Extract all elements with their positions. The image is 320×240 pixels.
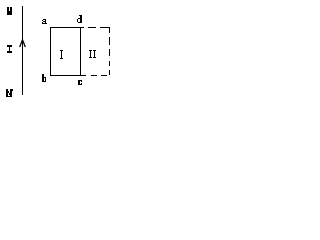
label II (region II) first I xyxy=(89,50,92,51)
dashed rect region II : right edge dash 4 xyxy=(109,61,110,66)
rectangle abcd : right edge d-c xyxy=(80,27,81,76)
dashed rect region II : top edge dash 3 into corner xyxy=(100,27,110,28)
label a xyxy=(43,19,46,20)
dashed rect region II : top edge dash 1 xyxy=(81,27,84,28)
dashed rect region II : bottom edge dash 3 xyxy=(101,75,107,76)
dashed rect region II : top edge dash 2 xyxy=(88,27,96,28)
rectangle abcd region I : top edge a-d xyxy=(50,27,81,28)
label II (region II) second I xyxy=(93,50,96,51)
dashed rect region II : bottom edge dash 2 xyxy=(91,75,97,76)
current arrow head on wire MN xyxy=(20,40,26,47)
background xyxy=(0,0,116,103)
wire MN (vertical conductor) xyxy=(22,6,23,95)
label d xyxy=(80,15,82,23)
label I (region I) xyxy=(60,50,63,51)
label I (current) xyxy=(7,45,12,47)
dashed rect region II : right edge dash 3 xyxy=(109,49,110,56)
rectangle abcd : bottom edge b-c (extends into first dash of region II bottom) xyxy=(50,75,86,76)
dashed rect region II : right edge dash 1 (from top corner) xyxy=(109,28,110,33)
label N xyxy=(6,89,8,97)
dashed rect region II : right edge dash 2 xyxy=(109,37,110,45)
rectangle abcd : left edge a-b xyxy=(50,27,51,76)
label b xyxy=(42,74,44,82)
dashed rect region II : right edge dash 5 (to bottom corner) xyxy=(109,70,110,75)
label c xyxy=(78,80,80,85)
label M xyxy=(7,7,9,15)
